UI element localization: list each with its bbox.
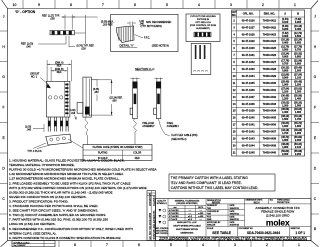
front view dim A bbox=[47, 60, 71, 81]
svg-text:SDA-70430-0421-0444: SDA-70430-0421-0444 bbox=[247, 231, 280, 235]
svg-text:INSP CONTROL: INSP CONTROL bbox=[155, 233, 168, 235]
svg-text:.040: .040 bbox=[27, 130, 32, 132]
O-option top view connector bar bbox=[50, 31, 75, 35]
svg-text:(0.05)/.002-(0.28)/.011 THICK: (0.05)/.002-(0.28)/.011 THICK MYLAR WITH… bbox=[9, 190, 113, 194]
document no row bbox=[239, 228, 306, 235]
svg-text:molex: molex bbox=[266, 218, 290, 228]
svg-text:09-47-1028: 09-47-1028 bbox=[242, 33, 255, 36]
svg-text:.030: .030 bbox=[81, 48, 86, 51]
table header row bbox=[232, 11, 300, 17]
svg-text:6. TWO (2) CIRCUIT ASSEMBLIES: 6. TWO (2) CIRCUIT ASSEMBLIES SUPPLIED A… bbox=[9, 213, 106, 217]
svg-text:2 PLACES: 2 PLACES bbox=[169, 215, 179, 218]
svg-text:SEE TABLE: SEE TABLE bbox=[212, 231, 232, 235]
O-option dim text REF 1.00 bbox=[21, 43, 33, 49]
svg-text:7. PART MATES WITH (0.64)/.025: 7. PART MATES WITH (0.64)/.025 SQ. PINS,… bbox=[9, 218, 108, 222]
plating code table bbox=[83, 145, 152, 161]
cut-out info box bbox=[186, 14, 220, 42]
svg-text:1.700: 1.700 bbox=[282, 132, 289, 135]
svg-text:09-47-1042: 09-47-1042 bbox=[242, 131, 255, 134]
dim 1.00/.040 left of pins bbox=[25, 127, 32, 132]
svg-text:(DIM. B): (DIM. B) bbox=[55, 69, 64, 71]
svg-text:4: 4 bbox=[198, 3, 200, 7]
svg-text:ENG. NO.: ENG. NO. bbox=[264, 13, 276, 16]
ticks above final view bbox=[154, 78, 163, 82]
zone numbers top margin bbox=[13, 3, 296, 7]
table row ckt 16 bbox=[233, 115, 302, 121]
svg-text:.250: .250 bbox=[94, 92, 99, 94]
svg-text:1.300: 1.300 bbox=[295, 90, 302, 93]
svg-text:70430-0440: 70430-0440 bbox=[263, 151, 277, 154]
svg-text:ASSEMBLY: ASSEMBLY bbox=[142, 125, 155, 128]
circuit no.1 callout bbox=[30, 74, 40, 79]
svg-text:SILVER INK CONDUCTORS ON (2.54: SILVER INK CONDUCTORS ON (2.54)/.100 CEN… bbox=[9, 195, 87, 199]
svg-text:09-47-1036: 09-47-1036 bbox=[242, 89, 255, 92]
detail V dim marks bbox=[127, 22, 136, 26]
svg-text:09-47-1029: 09-47-1029 bbox=[242, 40, 255, 43]
svg-text:4. STANDARD PACKING PER PK7007: 4. STANDARD PACKING PER PK70073-0001 SHA… bbox=[9, 204, 98, 208]
svg-text:2019/07/25: 2019/07/25 bbox=[148, 192, 152, 206]
svg-text:1.900: 1.900 bbox=[282, 146, 289, 149]
svg-text:.200 REF.: .200 REF. bbox=[103, 24, 114, 27]
svg-text:0.900: 0.900 bbox=[282, 76, 289, 79]
svg-text:SWILLER: SWILLER bbox=[207, 225, 216, 227]
svg-text:1 PLACE: 1 PLACE bbox=[169, 218, 178, 221]
dim 15.24 REF bbox=[88, 80, 112, 115]
svg-text:70430-0433: 70430-0433 bbox=[263, 103, 277, 106]
svg-text:1.300: 1.300 bbox=[282, 104, 289, 107]
svg-text:(6.35): (6.35) bbox=[93, 89, 99, 91]
svg-text:09-47-1031: 09-47-1031 bbox=[242, 54, 255, 57]
svg-text:70430-0422: 70430-0422 bbox=[263, 26, 277, 29]
dim 6.35/.250 bbox=[91, 80, 98, 87]
svg-text:----: ---- bbox=[189, 213, 192, 215]
svg-text:1.800: 1.800 bbox=[295, 125, 302, 128]
svg-text:INCH: INCH bbox=[254, 201, 260, 204]
svg-text:70430-0436: 70430-0436 bbox=[263, 124, 277, 127]
svg-text:SHEET NO: SHEET NO bbox=[291, 228, 301, 230]
svg-text:0.400: 0.400 bbox=[282, 42, 289, 45]
dim 0.40/.016 bbox=[69, 110, 75, 115]
svg-text:----: ---- bbox=[189, 210, 192, 212]
svg-text:2. PRE LOADED ASSEMBLY TO BE U: 2. PRE LOADED ASSEMBLY TO BE USED WITH K… bbox=[9, 181, 131, 185]
svg-text:5. SEE CHART FOR CIRCUIT SIZES: 5. SEE CHART FOR CIRCUIT SIZES, 'A' AND … bbox=[9, 209, 98, 213]
circuit size table frame bbox=[232, 10, 305, 156]
front view dim B bbox=[51, 67, 67, 81]
svg-text:1 OF 1: 1 OF 1 bbox=[295, 231, 305, 235]
svg-text:0.500: 0.500 bbox=[282, 49, 289, 52]
table row ckt 9 bbox=[233, 67, 302, 73]
table row ckt 19 bbox=[233, 136, 302, 142]
svg-text:OPT. 0621-2-10: OPT. 0621-2-10 bbox=[195, 22, 211, 24]
svg-text:2.000: 2.000 bbox=[295, 139, 302, 142]
svg-text:±.008: ±.008 bbox=[198, 216, 204, 218]
svg-text:SCALE: SCALE bbox=[207, 227, 214, 230]
svg-text:1.900: 1.900 bbox=[295, 132, 302, 135]
detail V text 1.00 MIN RECOMMENDED bbox=[139, 20, 171, 28]
svg-text:4: 4 bbox=[202, 243, 204, 247]
svg-text:WITH (1.57)/.062 WIDE COPPER C: WITH (1.57)/.062 WIDE COPPER CONDUCTORS … bbox=[9, 186, 147, 190]
drawing title bbox=[255, 206, 300, 218]
svg-text:1. HOUSING MATERIAL: GLASS FIL: 1. HOUSING MATERIAL: GLASS FILLED POLYES… bbox=[9, 159, 125, 163]
table row ckt 12 bbox=[233, 87, 302, 93]
side view body bbox=[77, 77, 91, 117]
svg-text:7: 7 bbox=[102, 3, 104, 7]
table row ckt 14 bbox=[233, 101, 302, 107]
svg-text:1986/07/21: 1986/07/21 bbox=[230, 219, 239, 221]
svg-text:8: 8 bbox=[70, 3, 72, 7]
leader carrier to plating table bbox=[68, 139, 83, 148]
svg-text:PLATING: PLATING bbox=[98, 152, 108, 155]
svg-text:----: ---- bbox=[199, 219, 202, 221]
svg-text:1.500: 1.500 bbox=[295, 104, 302, 107]
svg-text:(TYP. BOTH ENDS): (TYP. BOTH ENDS) bbox=[141, 25, 162, 28]
svg-text:70430-0429: 70430-0429 bbox=[263, 75, 277, 78]
detail V FFC label bbox=[135, 35, 144, 38]
table row ckt 10 bbox=[233, 73, 302, 79]
svg-text:10: 10 bbox=[13, 3, 17, 7]
table row ckt 6 bbox=[233, 46, 302, 52]
svg-text:CIRCUIT: CIRCUIT bbox=[30, 74, 40, 76]
svg-text:70430-0426: 70430-0426 bbox=[263, 54, 277, 57]
svg-text:±.005: ±.005 bbox=[198, 213, 204, 215]
primary carton note box bbox=[169, 174, 275, 191]
svg-text:SYMBOLS: SYMBOLS bbox=[157, 203, 168, 205]
O-option dim text REF 1.27 TYP bbox=[42, 14, 60, 20]
svg-text:1: 1 bbox=[298, 243, 300, 247]
svg-text:DATE: DATE bbox=[230, 210, 236, 213]
svg-text:70430-0428: 70430-0428 bbox=[263, 68, 277, 71]
bottom-left stamp box bbox=[12, 241, 55, 247]
svg-text:G: G bbox=[2, 75, 5, 79]
svg-text:1.400: 1.400 bbox=[295, 97, 302, 100]
svg-text:CPL. NO.: CPL. NO. bbox=[243, 13, 254, 16]
scale cell bbox=[238, 227, 290, 237]
zone ticks bottom margin bbox=[59, 241, 283, 247]
svg-text:⊕▢: ⊕▢ bbox=[270, 199, 274, 202]
final assembly section view bbox=[154, 82, 161, 119]
table row ckt 18 bbox=[233, 129, 302, 135]
svg-text:70430-0430: 70430-0430 bbox=[263, 82, 277, 85]
svg-text:PRE-LOAD: PRE-LOAD bbox=[142, 122, 154, 125]
svg-text:09-47-1037: 09-47-1037 bbox=[242, 96, 255, 99]
svg-text:8: 8 bbox=[74, 243, 76, 247]
svg-text:70430-0439: 70430-0439 bbox=[263, 144, 277, 147]
svg-text:09-47-1045: 09-47-1045 bbox=[242, 151, 255, 154]
svg-text:09-47-1034: 09-47-1034 bbox=[242, 75, 255, 78]
svg-text:09-47-1030: 09-47-1030 bbox=[242, 47, 255, 50]
front view pins bbox=[48, 117, 68, 132]
svg-text:.016: .016 bbox=[71, 113, 76, 115]
svg-text:LONG ON (2.54)/.100 CENTERS.: LONG ON (2.54)/.100 CENTERS. bbox=[9, 222, 56, 226]
svg-text:MATL CONTROL: MATL CONTROL bbox=[155, 227, 169, 230]
zone numbers bottom margin bbox=[74, 243, 300, 247]
svg-text:.600: .600 bbox=[112, 101, 117, 103]
svg-text:APPROVED BY: APPROVED BY bbox=[207, 221, 221, 224]
svg-text:1.100: 1.100 bbox=[282, 90, 289, 93]
svg-text:1.000: 1.000 bbox=[282, 83, 289, 86]
ticks above pre-load view bbox=[131, 78, 140, 82]
svg-text:9. PARTS CONFORM TO CLASS B CO: 9. PARTS CONFORM TO CLASS B COSMETIC SPE… bbox=[9, 236, 121, 240]
svg-text:1986/07/21: 1986/07/21 bbox=[230, 208, 239, 210]
sign-off column bbox=[206, 204, 311, 227]
svg-text:(1.00): (1.00) bbox=[25, 127, 31, 129]
svg-text:FLAT FLEX CABLE (P/N): FLAT FLEX CABLE (P/N) bbox=[171, 134, 197, 137]
final assembly label bbox=[167, 122, 180, 128]
svg-text:DATE: DATE bbox=[230, 215, 236, 218]
svg-text:QUALITY: QUALITY bbox=[157, 199, 167, 202]
svg-text:DIMENSIONS: DIMENSIONS bbox=[181, 232, 194, 234]
cut-out box connector icon bbox=[194, 32, 211, 37]
svg-text:1.02 MICROMETERS/40 MICROINCHE: 1.02 MICROMETERS/40 MICROINCHES MINIMUM … bbox=[9, 172, 124, 176]
svg-text:NO.: NO. bbox=[232, 14, 237, 17]
svg-text:09-47-1040: 09-47-1040 bbox=[242, 117, 255, 120]
svg-text:ASSEMBLY: ASSEMBLY bbox=[167, 125, 180, 128]
svg-text:REF.: REF. bbox=[57, 65, 62, 67]
svg-text:F: F bbox=[314, 106, 316, 110]
svg-text:0.900: 0.900 bbox=[295, 63, 302, 66]
svg-text:ALIGNMENT): ALIGNMENT) bbox=[196, 27, 210, 30]
svg-text:1.400: 1.400 bbox=[282, 111, 289, 114]
svg-text:7: 7 bbox=[106, 243, 108, 247]
svg-text:3 PLACES: 3 PLACES bbox=[169, 212, 179, 215]
svg-text:(SEE NOTE 2): (SEE NOTE 2) bbox=[171, 139, 186, 141]
svg-text:70430-0423: 70430-0423 bbox=[263, 33, 277, 36]
svg-text:5: 5 bbox=[166, 3, 168, 7]
spring under pre-load bbox=[134, 119, 137, 145]
svg-text:1.800: 1.800 bbox=[282, 139, 289, 142]
general tolerances column bbox=[175, 199, 200, 205]
svg-text:70430-0427: 70430-0427 bbox=[263, 61, 277, 64]
svg-text:G: G bbox=[314, 75, 317, 79]
svg-text:0.800: 0.800 bbox=[295, 56, 302, 59]
svg-text:09-47-1038: 09-47-1038 bbox=[242, 103, 255, 106]
svg-text:1.700: 1.700 bbox=[295, 118, 302, 121]
title block main verticals bbox=[156, 199, 312, 237]
svg-text:TYP. 4 PLCS.: TYP. 4 PLCS. bbox=[27, 150, 42, 153]
svg-text:70430-0435: 70430-0435 bbox=[263, 117, 277, 120]
svg-text:CUT-OUT FOR HOLDING: CUT-OUT FOR HOLDING bbox=[190, 16, 216, 18]
svg-text:09-47-1027: 09-47-1027 bbox=[242, 26, 255, 29]
units + projection row bbox=[246, 199, 291, 205]
svg-text:.040: .040 bbox=[26, 46, 31, 49]
svg-text:TERMINAL MATERIAL: PHOSPHOR BR: TERMINAL MATERIAL: PHOSPHOR BRONZE. bbox=[9, 163, 75, 167]
svg-text:2: 2 bbox=[266, 243, 268, 247]
svg-text:2: 2 bbox=[262, 3, 264, 7]
svg-text:1986/07/21: 1986/07/21 bbox=[230, 213, 239, 215]
svg-text:DATE: DATE bbox=[230, 221, 236, 224]
svg-text:09-47-1026: 09-47-1026 bbox=[242, 19, 255, 22]
svg-text:0.600: 0.600 bbox=[282, 56, 289, 59]
svg-text:PROJECTION: PROJECTION bbox=[277, 202, 290, 204]
svg-text:B: B bbox=[297, 13, 299, 16]
svg-text:09-47-1041: 09-47-1041 bbox=[242, 124, 255, 127]
svg-text:----: ---- bbox=[199, 210, 202, 212]
zone letters left margin bbox=[2, 15, 5, 232]
table row ckt 7 bbox=[233, 53, 302, 59]
flat flex cable leader bbox=[159, 119, 170, 136]
table row ckt 21 bbox=[233, 150, 302, 156]
svg-text:S-PUBLIC-A-49-2: S-PUBLIC-A-49-2 bbox=[14, 241, 31, 244]
quality symbols column bbox=[157, 199, 168, 205]
svg-text:09-47-1035: 09-47-1035 bbox=[242, 82, 255, 85]
svg-text:70430-0421: 70430-0421 bbox=[263, 19, 277, 22]
table row ckt 8 bbox=[233, 60, 302, 66]
svg-text:1.600: 1.600 bbox=[282, 125, 289, 128]
svg-text:DRAFT WHERE APPLICABLE: DRAFT WHERE APPLICABLE bbox=[173, 225, 201, 228]
svg-text:1.100: 1.100 bbox=[295, 76, 302, 79]
svg-text:1.200: 1.200 bbox=[295, 83, 302, 86]
zone ticks top margin bbox=[23, 0, 279, 9]
svg-text:0.400: 0.400 bbox=[295, 28, 302, 31]
svg-text:09-47-1044: 09-47-1044 bbox=[242, 144, 255, 147]
svg-text:2019/07/25: 2019/07/25 bbox=[230, 225, 239, 227]
pre-load assembly label bbox=[142, 122, 155, 128]
svg-text:3: 3 bbox=[234, 243, 236, 247]
svg-text:70430-0425: 70430-0425 bbox=[263, 47, 277, 50]
svg-text:DETAIL 'V': DETAIL 'V' bbox=[120, 44, 135, 48]
svg-text:DATE: DATE bbox=[230, 204, 236, 207]
svg-text:THE PRIMARY CARTON WITH A LABE: THE PRIMARY CARTON WITH A LABEL STATING bbox=[171, 176, 248, 180]
svg-text:INCH: INCH bbox=[198, 207, 203, 209]
svg-text:1.200: 1.200 bbox=[282, 97, 289, 100]
pcb cut-out front view bbox=[191, 43, 211, 74]
table row ckt 17 bbox=[233, 122, 302, 128]
svg-text:0.500: 0.500 bbox=[295, 35, 302, 38]
svg-text:PLATING 30 GOLD =0.76 MICROMET: PLATING 30 GOLD =0.76 MICROMETERS/30 MIC… bbox=[9, 168, 158, 172]
table row ckt 3 bbox=[233, 25, 302, 31]
svg-text:'ELV AND RoHS COMPLIANT' IS LE: 'ELV AND RoHS COMPLIANT' IS LEAD FREE. bbox=[171, 181, 242, 185]
svg-text:1.500: 1.500 bbox=[282, 118, 289, 121]
svg-text:09-47-1039: 09-47-1039 bbox=[242, 110, 255, 113]
svg-text:MUST REMAIN WITHIN: MUST REMAIN WITHIN bbox=[176, 228, 198, 231]
svg-text:F.F.C.: F.F.C. bbox=[144, 36, 150, 39]
svg-text:ANGULAR TOL. ±3.0°: ANGULAR TOL. ±3.0° bbox=[177, 221, 197, 224]
svg-text:DOCUMENT NO: DOCUMENT NO bbox=[239, 228, 254, 230]
svg-text:1: 1 bbox=[294, 3, 296, 7]
svg-text:1.27 MICROMETERS/50 MICROINCHE: 1.27 MICROMETERS/50 MICROINCHES MINIMUM … bbox=[9, 177, 120, 181]
zone letters right margin bbox=[314, 15, 317, 232]
svg-text:mm: mm bbox=[173, 207, 177, 209]
pre-load assembly section view bbox=[130, 82, 137, 119]
svg-text:1.600: 1.600 bbox=[295, 111, 302, 114]
svg-text:70430-0438: 70430-0438 bbox=[263, 138, 277, 141]
svg-text:REF.: REF. bbox=[57, 72, 62, 74]
table row ckt 5 bbox=[233, 39, 302, 45]
svg-text:J: J bbox=[314, 15, 316, 19]
svg-text:'O' - OPTION: 'O' - OPTION bbox=[15, 10, 36, 14]
svg-text:F: F bbox=[3, 106, 5, 110]
notes block bbox=[9, 159, 158, 240]
svg-text:J: J bbox=[3, 15, 5, 19]
zone ticks right margin bbox=[311, 31, 319, 214]
svg-text:2.100: 2.100 bbox=[295, 146, 302, 149]
svg-text:2.000: 2.000 bbox=[282, 153, 289, 156]
table row ckt 13 bbox=[233, 94, 302, 100]
svg-text:0.800: 0.800 bbox=[282, 70, 289, 73]
svg-text:FIXTURE IN: FIXTURE IN bbox=[197, 19, 210, 21]
svg-text:(FOR CONTROL OF ROW: (FOR CONTROL OF ROW bbox=[190, 25, 217, 27]
svg-text:MR/SN: MR/SN bbox=[212, 201, 220, 204]
svg-text:6: 6 bbox=[134, 3, 136, 7]
svg-text:70430-0431: 70430-0431 bbox=[263, 89, 277, 92]
front view housing bbox=[46, 81, 70, 117]
svg-text:A: A bbox=[284, 13, 286, 16]
table row ckt 4 bbox=[233, 32, 302, 38]
svg-text:0.300: 0.300 bbox=[295, 21, 302, 24]
O-option dim text 0.76 TYP bbox=[77, 45, 95, 51]
svg-text:09-47-1032: 09-47-1032 bbox=[242, 61, 255, 64]
O-option dim lines bbox=[38, 15, 98, 48]
svg-text:COLOR: COLOR bbox=[133, 153, 142, 155]
flat flex cable label bbox=[171, 134, 197, 141]
svg-text:1.000: 1.000 bbox=[295, 70, 302, 73]
svg-text:8. RECOMMENDED P.C. CONFIGURAT: 8. RECOMMENDED P.C. CONFIGURATION FOR OP… bbox=[9, 227, 133, 231]
circuit no.1 arrow bbox=[47, 83, 51, 88]
svg-text:INTERIM CLIPS, (SEE DETAIL A).: INTERIM CLIPS, (SEE DETAIL A). bbox=[9, 231, 57, 235]
svg-text:70430-0437: 70430-0437 bbox=[263, 131, 277, 134]
svg-text:EC NO: SD-2019-0456: EC NO: SD-2019-0456 bbox=[148, 212, 152, 239]
svg-text:PLATING CODE (STRIPE ON CARRIE: PLATING CODE (STRIPE ON CARRIER STRIP) bbox=[93, 146, 143, 149]
svg-text:0.700: 0.700 bbox=[282, 63, 289, 66]
O-option dim text 5.08 MAX bbox=[101, 21, 114, 27]
svg-text:70430-0434: 70430-0434 bbox=[263, 110, 277, 113]
svg-text:0.100: 0.100 bbox=[282, 21, 289, 24]
svg-text:0.600: 0.600 bbox=[295, 42, 302, 45]
svg-text:SECTION C-C: SECTION C-C bbox=[135, 67, 155, 71]
svg-text:(UNLESS SPECIFIED): (UNLESS SPECIFIED) bbox=[176, 203, 198, 205]
svg-text:5: 5 bbox=[170, 243, 172, 247]
svg-text:3: 3 bbox=[230, 3, 232, 7]
svg-text:RED: RED bbox=[135, 158, 140, 160]
svg-text:0.300: 0.300 bbox=[282, 35, 289, 38]
svg-text:FINAL: FINAL bbox=[167, 122, 174, 125]
svg-text:3. PRODUCT SPECIFICATION: PS-7: 3. PRODUCT SPECIFICATION: PS-70430. bbox=[9, 200, 69, 204]
detail V box bbox=[111, 14, 178, 51]
svg-text:9: 9 bbox=[38, 3, 40, 7]
svg-text:MIN. RECOMMENDED: MIN. RECOMMENDED bbox=[146, 21, 171, 24]
svg-text:2.200: 2.200 bbox=[295, 153, 302, 156]
svg-text:GENERAL TOLERANCES: GENERAL TOLERANCES bbox=[175, 199, 200, 202]
svg-text:0.200: 0.200 bbox=[282, 28, 289, 31]
svg-text:(15.24) REF.: (15.24) REF. bbox=[110, 98, 123, 100]
table row ckt 11 bbox=[233, 80, 302, 86]
svg-text:(0.40): (0.40) bbox=[69, 110, 75, 112]
svg-text:CARTONS WITHOUT THIS LABEL MAY: CARTONS WITHOUT THIS LABEL MAY CONTAIN L… bbox=[171, 186, 259, 190]
detail V hatched FFC wedge bbox=[116, 26, 134, 43]
svg-text:RWE: RWE bbox=[207, 219, 212, 221]
carrier strip plate bbox=[46, 134, 71, 145]
front view circles bbox=[48, 96, 63, 99]
svg-text:70430-0424: 70430-0424 bbox=[263, 40, 277, 43]
svg-text:4 PLACES: 4 PLACES bbox=[169, 209, 179, 212]
spring under side view bbox=[85, 118, 88, 145]
proprietary statement bbox=[159, 236, 309, 241]
cut-out box text bbox=[190, 16, 217, 30]
svg-text:09-47-1043: 09-47-1043 bbox=[242, 138, 255, 141]
svg-text:NO. 1: NO. 1 bbox=[31, 77, 38, 79]
svg-text:(SEE NOTE 8): (SEE NOTE 8) bbox=[152, 44, 169, 48]
svg-text:6: 6 bbox=[138, 243, 140, 247]
svg-text:0.700: 0.700 bbox=[295, 49, 302, 52]
document status vertical strip bbox=[147, 191, 156, 241]
svg-text:09-47-1033: 09-47-1033 bbox=[242, 68, 255, 71]
svg-text:DRAWN BY: DRAWN BY bbox=[207, 204, 218, 207]
table row ckt 20 bbox=[233, 143, 302, 149]
table row ckt 15 bbox=[233, 108, 302, 114]
svg-text:70430-0432: 70430-0432 bbox=[263, 96, 277, 99]
title block outer frame bbox=[156, 199, 312, 241]
svg-text:.050: .050 bbox=[50, 17, 55, 20]
